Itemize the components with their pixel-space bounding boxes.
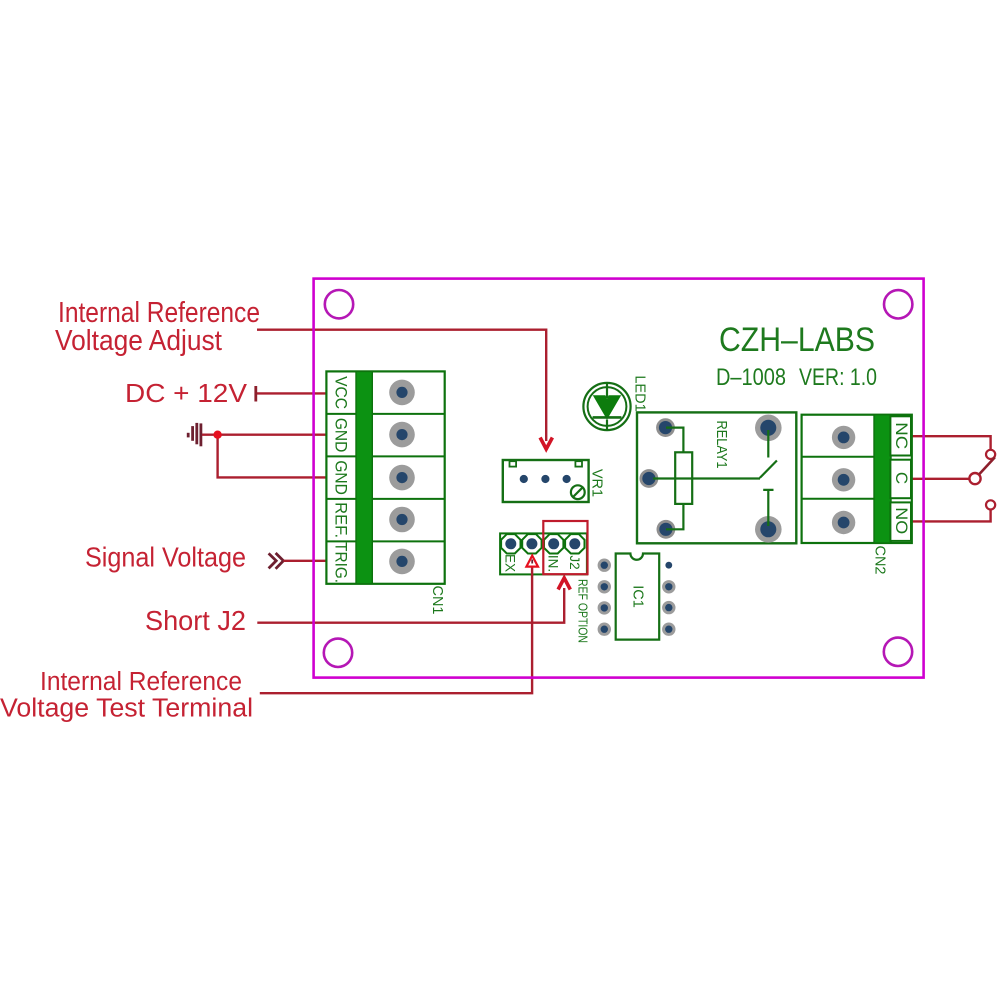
ground symbol bbox=[188, 423, 201, 446]
svg-text:VER: 1.0: VER: 1.0 bbox=[799, 364, 877, 391]
svg-text:NO: NO bbox=[892, 507, 911, 534]
CN2 pad C bbox=[832, 468, 855, 491]
terminal block CN1 bbox=[326, 371, 445, 614]
RELAY1 pad common bbox=[755, 415, 782, 442]
svg-text:CN1: CN1 bbox=[429, 585, 445, 614]
VR1 notch right bbox=[575, 461, 582, 466]
svg-text:TRIG.: TRIG. bbox=[332, 542, 351, 583]
RELAY1 switch lever bbox=[760, 461, 777, 478]
svg-text:Voltage Test Terminal: Voltage Test Terminal bbox=[0, 695, 253, 723]
wire: Short J2 annotation bbox=[257, 588, 564, 623]
svg-text:EX: EX bbox=[503, 554, 518, 572]
wire segment: test terminal into header bbox=[531, 566, 533, 576]
svg-text:VR1: VR1 bbox=[589, 469, 605, 497]
CN1 pad 4 bbox=[389, 507, 415, 533]
svg-text:Voltage Adjust: Voltage Adjust bbox=[55, 325, 222, 357]
CN2 pad NO bbox=[832, 511, 855, 534]
IC IC1 bbox=[598, 554, 676, 640]
arrowhead Short J2 bbox=[558, 578, 570, 590]
wire: DC +12V to VCC bbox=[257, 392, 327, 394]
wire: internal reference voltage test terminal bbox=[260, 568, 532, 693]
svg-text:GND: GND bbox=[332, 418, 351, 453]
CN2 pad NC bbox=[832, 426, 855, 449]
switch lever bbox=[979, 457, 995, 474]
NC switch contact circle bbox=[986, 450, 995, 459]
CN1 green stripe bbox=[356, 371, 372, 583]
CN2 label cell C bbox=[890, 460, 911, 499]
IC1 left pads bbox=[598, 559, 611, 636]
svg-text:CZH–LABS: CZH–LABS bbox=[719, 321, 875, 359]
svg-text:NC: NC bbox=[892, 422, 911, 449]
svg-text:Internal Reference: Internal Reference bbox=[40, 668, 242, 696]
LED1 triangle bbox=[593, 395, 621, 419]
IC1 body with notch bbox=[616, 554, 660, 640]
svg-text:GND: GND bbox=[332, 460, 351, 495]
RELAY1 pad coil bottom bbox=[657, 520, 676, 539]
wire: NC to external switch bbox=[912, 436, 991, 449]
ground junction dot bbox=[213, 431, 221, 439]
svg-text:IN.: IN. bbox=[546, 555, 561, 572]
RELAY1 switch common wire bbox=[767, 430, 769, 458]
wire: C to external switch bbox=[912, 478, 970, 480]
CN2 outer rect bbox=[802, 415, 912, 543]
header pin 1 octagon bbox=[501, 534, 520, 553]
VR1 screw bbox=[571, 485, 585, 499]
svg-text:VCC: VCC bbox=[332, 376, 351, 409]
CN2 green stripe bbox=[874, 415, 891, 543]
svg-text:IC1: IC1 bbox=[630, 585, 646, 608]
label: Internal Reference Voltage Test Terminal bbox=[0, 668, 253, 723]
header pin 4 octagon bbox=[565, 534, 584, 553]
mounting hole bottom-left bbox=[324, 639, 352, 667]
CN2 label cell NC bbox=[890, 416, 911, 455]
svg-text:Short J2: Short J2 bbox=[145, 605, 246, 636]
LED1 cathode wire bbox=[606, 420, 608, 430]
header pin dots bbox=[505, 538, 516, 549]
RELAY1 pad NO bbox=[755, 516, 782, 543]
mounting hole bottom-right bbox=[884, 638, 912, 666]
LED1 anode wire bbox=[606, 384, 608, 398]
header outer rect bbox=[500, 533, 587, 574]
LED LED1 bbox=[583, 375, 647, 430]
potentiometer VR1 bbox=[503, 460, 605, 502]
header pin 2 octagon bbox=[522, 534, 541, 553]
wire: ground to GND terminals bbox=[202, 435, 327, 478]
CN2 row dividers pad column bbox=[802, 457, 874, 499]
svg-text:DC + 12V: DC + 12V bbox=[125, 378, 248, 408]
CN1 outer rect bbox=[326, 371, 444, 583]
RELAY1 pad coil mid bbox=[640, 469, 659, 488]
header J2 option bbox=[500, 521, 589, 643]
VR1 notch left bbox=[510, 461, 517, 466]
header pin 3 octagon bbox=[544, 534, 563, 553]
CN2 label cell NO bbox=[890, 502, 911, 541]
arrowhead at VR1 bbox=[540, 438, 552, 450]
terminal block CN2 bbox=[802, 415, 912, 575]
RELAY1 body bbox=[637, 412, 796, 543]
CN1 pad 3 bbox=[389, 465, 415, 491]
svg-text:J2: J2 bbox=[567, 555, 582, 569]
svg-text:RELAY1: RELAY1 bbox=[713, 421, 729, 469]
svg-text:C: C bbox=[892, 472, 911, 484]
NO switch contact circle bbox=[986, 500, 995, 509]
label: Internal Reference Voltage Adjust bbox=[55, 297, 260, 357]
svg-text:D–1008: D–1008 bbox=[716, 364, 786, 391]
signal voltage chevrons bbox=[269, 553, 284, 569]
CN1 row dividers pad column bbox=[372, 414, 444, 542]
RELAY1 switch contact bbox=[763, 490, 773, 526]
VR1 body bbox=[503, 460, 589, 502]
CN1 row dividers label column bbox=[326, 414, 356, 542]
CN1 pad 5 bbox=[389, 549, 415, 575]
svg-text:CN2: CN2 bbox=[872, 545, 888, 574]
LED1 inner ring bbox=[588, 387, 627, 426]
C switch contact circle bbox=[969, 473, 980, 484]
warning triangle test terminal bbox=[526, 556, 538, 567]
relay RELAY1 bbox=[637, 412, 796, 543]
svg-text:REF OPTION: REF OPTION bbox=[576, 579, 590, 643]
RELAY1 coil bbox=[675, 452, 692, 504]
mounting hole top-right bbox=[884, 290, 912, 318]
RELAY1 coil wires bbox=[653, 428, 760, 530]
LED1 outer ring bbox=[583, 383, 630, 430]
RELAY1 pad coil top bbox=[656, 418, 675, 437]
IC1 right pads bbox=[662, 562, 675, 636]
svg-text:LED1: LED1 bbox=[632, 375, 648, 411]
svg-text:REF.: REF. bbox=[332, 502, 351, 538]
VR1 pin dots bbox=[520, 475, 528, 483]
wire: internal reference voltage adjust to VR1 bbox=[257, 330, 546, 441]
LED1 cathode bar bbox=[593, 416, 622, 419]
wire: signal voltage to TRIG bbox=[283, 560, 327, 562]
CN1 pad 2 bbox=[389, 422, 415, 448]
wire: NO to external switch bbox=[912, 510, 991, 522]
svg-text:Signal Voltage: Signal Voltage bbox=[85, 542, 246, 573]
mounting hole top-left bbox=[325, 290, 353, 318]
J2 highlight red rect bbox=[543, 521, 587, 574]
CN1 pad 1 bbox=[389, 380, 415, 406]
DC wire end tick bbox=[254, 386, 257, 402]
board outline bbox=[314, 279, 924, 678]
